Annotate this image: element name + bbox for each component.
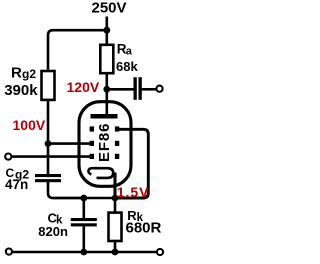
wire anode node to coupling cap [107,88,134,91]
node cathode line dot at Ck [80,195,87,202]
wire input to grid g1 [12,155,94,158]
terminal ground left circle [6,249,12,255]
grid g3 dash left [90,126,94,131]
wire Rk bottom lead [114,241,117,252]
node 250V supply stub [106,17,109,31]
svg-text:390k: 390k [4,82,38,99]
terminal input circle [5,154,11,160]
grid g3 dash right [115,126,119,131]
anode plate bar [91,114,118,119]
wire g2 node to grid g2 [48,142,94,145]
grid g2 dash right [115,141,119,146]
svg-text:820n: 820n [38,224,68,239]
grid g2 dash left [90,141,94,146]
resistor Ra [100,45,113,73]
wire grid g3 to right and down to cathode line [115,129,148,198]
capacitor Cg2 plate 1 [35,174,61,177]
cathode hook [88,168,113,178]
capacitor Ck plate 1 [71,218,97,221]
svg-text:EF86: EF86 [96,123,113,162]
svg-text:100V: 100V [13,117,46,133]
wire Rg2 bottom to g2 node [47,100,50,144]
tube EF86 envelope [79,102,131,187]
terminal output circle [156,86,162,92]
svg-text:68k: 68k [116,59,138,74]
node top junction dot [103,27,110,34]
node g2 junction dot [45,140,52,147]
capacitor coupling (output) plate 1 [134,77,137,100]
wire cathode line [53,197,120,200]
wire Ck bottom lead [83,226,86,252]
node cathode line dot at Rk [112,195,119,202]
wire Ra top lead [106,30,109,44]
svg-text:47n: 47n [5,177,28,192]
svg-text:a: a [126,45,133,57]
wire Ra bottom to anode [106,73,109,115]
grid g1 dash left [90,154,94,159]
capacitor Cg2 plate 2 [35,179,61,182]
resistor Rk [109,213,122,241]
svg-text:680R: 680R [126,220,162,237]
svg-text:g2: g2 [22,67,36,81]
svg-text:1.5V: 1.5V [117,184,150,200]
wire Ck top lead [83,198,86,219]
svg-text:250V: 250V [92,0,127,16]
capacitor Ck plate 2 [71,223,97,226]
wire g2 node down to Cg2 [47,144,50,175]
terminal ground right circle [157,249,163,255]
node rail dot at Ck [80,249,87,256]
wire Cg2 bottom to cathode line [48,182,84,198]
node rail dot at Rk [112,249,119,256]
resistor Rg2 [42,71,55,100]
grid g1 dash right [115,154,119,159]
wire top horizontal from supply to Rg2 [48,30,107,69]
wire Rk top lead [114,198,117,213]
wire cathode tail down through envelope [113,173,116,199]
svg-text:R: R [11,65,22,82]
node 120V anode junction dot [103,86,110,93]
wire coupling cap to output terminal [142,88,156,91]
capacitor coupling plate 2 [139,77,142,100]
wire ground rail [13,251,157,254]
svg-text:120V: 120V [67,79,100,95]
